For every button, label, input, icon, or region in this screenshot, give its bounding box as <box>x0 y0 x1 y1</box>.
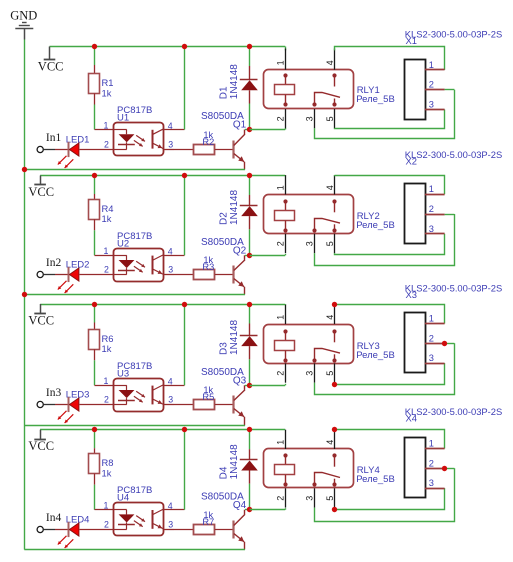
svg-text:1N4148: 1N4148 <box>229 444 240 479</box>
svg-text:Q2: Q2 <box>233 246 247 257</box>
wire X3 pin 2 jog <box>445 343 455 345</box>
junction VCC rail / D2 <box>247 173 252 178</box>
pin stub U2.3 <box>164 274 174 276</box>
svg-text:Реле_5B: Реле_5B <box>356 474 395 485</box>
wire collector node to relay RLY3 pin 2 <box>250 385 286 387</box>
svg-text:1: 1 <box>276 60 286 65</box>
wire VCC rail to relay RLY4 pin 1 <box>285 429 287 431</box>
wire LED2 to U2 pin 2 <box>80 274 114 276</box>
diode D4 1N4148 <box>219 430 258 510</box>
svg-text:R7: R7 <box>202 517 214 527</box>
svg-text:X1: X1 <box>406 35 417 46</box>
wire VCC rail to relay RLY1 pin 1 <box>285 47 287 51</box>
svg-text:KLS2-300-5.00-03P-2S: KLS2-300-5.00-03P-2S <box>405 149 502 160</box>
svg-text:2: 2 <box>104 520 109 530</box>
junction VCC rail / U1 pin 4 riser <box>182 44 187 49</box>
wire relay RLY2 pin 5 to X2 pin 3 <box>335 234 445 255</box>
wire channel 4 bottom rail <box>24 549 245 551</box>
relay RLY4 Реле_5B <box>264 430 395 508</box>
svg-text:4: 4 <box>325 440 335 445</box>
svg-text:3: 3 <box>168 395 173 405</box>
wire LED4 anode <box>78 529 81 531</box>
junction D2 / Q2 collector / relay coil <box>247 253 252 258</box>
wire relay RLY2 pin 3 to X2 pin 2 <box>315 214 455 266</box>
wire R1 to U1 pin 1 <box>94 105 96 130</box>
svg-text:X4: X4 <box>406 413 417 424</box>
junction X3 pin 2 <box>442 341 447 346</box>
svg-text:1: 1 <box>104 246 109 256</box>
wire Q4 collector to node <box>245 509 250 511</box>
pin stub U4.4 <box>164 509 184 511</box>
svg-text:2: 2 <box>429 458 434 468</box>
svg-text:2: 2 <box>429 333 434 343</box>
wire relay RLY3 pin 5 to X3 pin 3 <box>335 363 445 384</box>
junction D3 / Q3 collector / relay coil <box>247 383 252 388</box>
transistor Q4 S8050DA <box>201 491 247 549</box>
wire VCC rail channel 2 <box>40 175 285 177</box>
power port VCC channel 1 <box>38 47 64 74</box>
svg-text:3: 3 <box>305 116 315 121</box>
svg-text:2: 2 <box>104 140 109 150</box>
svg-text:2: 2 <box>104 395 109 405</box>
node In2 input port <box>37 257 61 278</box>
svg-text:VCC: VCC <box>28 185 54 199</box>
transistor Q3 S8050DA <box>201 367 247 426</box>
svg-text:In3: In3 <box>46 387 62 399</box>
wire relay RLY1 pin 3 to X1 pin 2 <box>315 90 455 139</box>
wire VCC rail to relay RLY3 pin 1 <box>285 303 287 306</box>
pin stub U1.3 <box>164 149 174 151</box>
wire U1 pin 4 to VCC rail <box>184 47 186 130</box>
wire relay RLY4 pin 4 to X4 pin 1 <box>334 430 444 449</box>
svg-text:1: 1 <box>104 501 109 511</box>
resistor R4 1k <box>89 176 114 231</box>
svg-text:5: 5 <box>325 241 335 246</box>
svg-text:1: 1 <box>429 184 434 194</box>
svg-text:3: 3 <box>429 353 434 363</box>
connector X3 KLS2-300-5.00-03P-2S <box>405 283 503 373</box>
svg-text:2: 2 <box>276 371 286 376</box>
op-amp U4 optocoupler PC817B <box>104 485 174 535</box>
LED LED1 <box>58 135 90 169</box>
svg-text:4: 4 <box>325 315 335 320</box>
wire channel 1 bottom rail <box>24 169 245 171</box>
ground GND net port <box>10 9 37 40</box>
wire GND bus (left vertical) <box>24 40 26 550</box>
svg-text:VCC: VCC <box>38 60 64 74</box>
wire VCC rail channel 3 <box>40 304 285 306</box>
node In4 input port <box>37 512 61 533</box>
junction D4 / Q4 collector / relay coil <box>247 507 252 512</box>
wire X2 pin 2 jog <box>445 214 455 216</box>
wire In1 to LED1 <box>43 149 55 151</box>
svg-text:1: 1 <box>276 315 286 320</box>
LED LED2 <box>58 260 90 294</box>
svg-text:1: 1 <box>104 376 109 386</box>
svg-text:In1: In1 <box>46 132 62 144</box>
svg-text:1N4148: 1N4148 <box>229 320 240 355</box>
junction VCC rail / U3 pin 4 riser <box>182 302 187 307</box>
diode D2 1N4148 <box>219 176 258 256</box>
pin stub U4.3 <box>164 529 174 531</box>
svg-text:3: 3 <box>305 496 315 501</box>
svg-text:3: 3 <box>168 265 173 275</box>
svg-text:2: 2 <box>429 204 434 214</box>
resistor R1 1k <box>89 47 114 105</box>
pin stub U3.3 <box>164 404 174 406</box>
LED LED3 <box>58 390 90 424</box>
wire relay RLY3 pin 4 to X3 pin 1 <box>334 305 444 324</box>
junction relay RLY3 pin 5 <box>332 382 337 387</box>
resistor R3 1k <box>174 255 234 280</box>
svg-text:GND: GND <box>10 9 37 23</box>
svg-text:In2: In2 <box>46 257 62 269</box>
wire LED3 to U3 pin 2 <box>80 404 114 406</box>
wire LED2 anode <box>78 274 81 276</box>
power port VCC channel 4 <box>28 430 54 454</box>
svg-text:1N4148: 1N4148 <box>229 190 240 225</box>
wire relay RLY2 pin 4 to X2 pin 1 <box>335 175 445 194</box>
svg-text:3: 3 <box>429 478 434 488</box>
svg-text:Реле_5B: Реле_5B <box>356 220 395 231</box>
junction D1 / Q1 collector / relay coil <box>247 127 252 132</box>
svg-text:X2: X2 <box>406 156 417 167</box>
svg-text:1: 1 <box>104 120 109 130</box>
svg-text:5: 5 <box>325 116 335 121</box>
connector X2 KLS2-300-5.00-03P-2S <box>405 149 503 243</box>
op-amp U2 optocoupler PC817B <box>104 231 174 282</box>
svg-text:2: 2 <box>276 116 286 121</box>
resistor R2 1k <box>174 130 234 155</box>
svg-text:1: 1 <box>276 185 286 190</box>
junction VCC rail / R8 <box>92 427 97 432</box>
wire LED4 to U4 pin 2 <box>80 529 114 531</box>
svg-text:R3: R3 <box>202 262 214 272</box>
svg-text:Q4: Q4 <box>233 500 247 511</box>
power port VCC channel 3 <box>28 304 54 328</box>
wire relay RLY1 pin 5 to X1 pin 3 <box>335 110 445 129</box>
svg-text:Реле_5B: Реле_5B <box>356 350 395 361</box>
svg-text:1: 1 <box>276 440 286 445</box>
junction VCC rail / R4 <box>92 173 97 178</box>
resistor R7 1k <box>174 510 234 535</box>
svg-text:Q3: Q3 <box>233 376 247 387</box>
svg-text:D1: D1 <box>219 86 230 99</box>
svg-text:D4: D4 <box>219 466 230 479</box>
pin stub U2.4 <box>164 255 184 257</box>
pin stub U1.1 <box>95 129 114 131</box>
wire U3 pin 4 to VCC rail <box>184 304 186 385</box>
wire relay RLY1 pin 4 to X1 pin 1 <box>335 47 445 70</box>
wire R4 to U2 pin 1 <box>94 230 96 255</box>
junction VCC rail / D1 <box>247 44 252 49</box>
op-amp U3 optocoupler PC817B <box>104 361 174 412</box>
pin stub U1.4 <box>164 129 184 131</box>
wire VCC rail channel 4 <box>40 429 285 431</box>
junction relay RLY4 pin 5 <box>332 507 337 512</box>
pin stub U4.1 <box>95 509 114 511</box>
junction VCC rail / R1 <box>92 44 97 49</box>
wire Q2 collector to node <box>245 255 250 257</box>
wire collector node to relay RLY2 pin 2 <box>250 255 286 257</box>
wire collector node to relay RLY4 pin 2 <box>250 509 286 511</box>
svg-text:1: 1 <box>429 60 434 70</box>
wire LED3 anode <box>78 404 81 406</box>
relay RLY3 Реле_5B <box>264 305 395 383</box>
svg-text:4: 4 <box>325 185 335 190</box>
wire In2 to LED2 <box>43 274 55 276</box>
svg-text:VCC: VCC <box>28 439 54 453</box>
svg-text:KLS2-300-5.00-03P-2S: KLS2-300-5.00-03P-2S <box>405 283 502 294</box>
junction GND bus / channel 1 bottom rail <box>22 167 27 172</box>
junction VCC rail / D3 <box>247 302 252 307</box>
svg-text:4: 4 <box>325 60 335 65</box>
resistor R5 1k <box>174 385 234 410</box>
wire channel 3 bottom rail <box>24 425 245 427</box>
junction relay RLY3 pin 4 / VCC wire <box>332 302 337 307</box>
wire In3 to LED3 <box>43 404 55 406</box>
svg-text:2: 2 <box>104 265 109 275</box>
node In3 input port <box>37 387 61 408</box>
svg-text:3: 3 <box>168 520 173 530</box>
resistor R8 1k <box>89 430 114 485</box>
junction GND bus / channel 2 bottom rail <box>22 292 27 297</box>
junction VCC rail / U2 pin 4 riser <box>182 173 187 178</box>
diode D1 1N4148 <box>219 47 258 130</box>
power port VCC channel 2 <box>28 176 54 200</box>
connector X4 KLS2-300-5.00-03P-2S <box>405 406 503 497</box>
wire X4 pin 2 jog <box>445 468 455 470</box>
junction X4 pin 2 <box>442 466 447 471</box>
wire R8 to U4 pin 1 <box>94 485 96 510</box>
svg-text:3: 3 <box>305 241 315 246</box>
connector X1 KLS2-300-5.00-03P-2S <box>405 29 503 120</box>
wire VCC rail to relay RLY2 pin 1 <box>285 174 287 176</box>
wire In4 to LED4 <box>43 529 55 531</box>
relay RLY2 Реле_5B <box>264 175 395 253</box>
svg-text:R2: R2 <box>202 137 214 147</box>
svg-text:2: 2 <box>276 496 286 501</box>
svg-text:5: 5 <box>325 371 335 376</box>
pin stub U3.4 <box>164 385 184 387</box>
wire U4 pin 4 to VCC rail <box>184 430 186 510</box>
junction relay RLY4 pin 4 / VCC wire <box>332 427 337 432</box>
pin stub U2.1 <box>95 255 114 257</box>
wire relay RLY4 pin 5 to X4 pin 3 <box>335 488 445 509</box>
svg-text:Реле_5B: Реле_5B <box>356 94 395 105</box>
svg-text:3: 3 <box>429 100 434 110</box>
LED LED4 <box>58 515 90 549</box>
svg-text:D3: D3 <box>219 342 230 355</box>
transistor Q2 S8050DA <box>201 237 247 295</box>
svg-text:2: 2 <box>429 80 434 90</box>
svg-text:1N4148: 1N4148 <box>229 64 240 99</box>
wire LED1 anode <box>78 149 81 151</box>
svg-text:1k: 1k <box>102 468 112 479</box>
pin stub U3.1 <box>95 385 114 387</box>
wire Q3 collector to node <box>245 385 250 387</box>
svg-text:D2: D2 <box>219 212 230 225</box>
junction VCC rail / R6 <box>92 302 97 307</box>
wire X1 pin 2 jog <box>445 89 455 91</box>
wire relay RLY3 pin 3 to X3 pin 2 <box>315 343 455 394</box>
wire collector node to relay RLY1 pin 2 <box>250 129 286 131</box>
svg-text:1: 1 <box>429 314 434 324</box>
svg-text:VCC: VCC <box>28 314 54 328</box>
diode D3 1N4148 <box>219 304 258 385</box>
wire VCC rail channel 1 <box>50 46 286 48</box>
svg-text:Q1: Q1 <box>233 120 247 131</box>
relay RLY1 Реле_5B <box>264 49 395 129</box>
wire channel 2 bottom rail <box>24 294 245 296</box>
op-amp U1 optocoupler PC817B <box>104 105 174 156</box>
transistor Q1 S8050DA <box>201 111 247 169</box>
svg-text:R5: R5 <box>202 392 214 402</box>
junction VCC rail / U4 pin 4 riser <box>182 427 187 432</box>
node In1 input port <box>37 132 61 153</box>
svg-text:1k: 1k <box>102 213 112 224</box>
junction VCC rail / D4 <box>247 427 252 432</box>
svg-text:3: 3 <box>429 224 434 234</box>
svg-text:3: 3 <box>305 371 315 376</box>
svg-text:1k: 1k <box>102 87 112 98</box>
svg-text:1: 1 <box>429 439 434 449</box>
svg-text:In4: In4 <box>46 512 62 524</box>
svg-text:2: 2 <box>276 241 286 246</box>
svg-text:KLS2-300-5.00-03P-2S: KLS2-300-5.00-03P-2S <box>405 406 502 417</box>
wire Q1 collector to node <box>245 129 250 131</box>
wire relay RLY4 pin 3 to X4 pin 2 <box>315 468 455 521</box>
svg-text:X3: X3 <box>406 289 417 300</box>
resistor R6 1k <box>89 304 114 360</box>
svg-text:KLS2-300-5.00-03P-2S: KLS2-300-5.00-03P-2S <box>405 29 502 40</box>
wire U2 pin 4 to VCC rail <box>184 176 186 256</box>
svg-text:3: 3 <box>168 140 173 150</box>
wire LED1 to U1 pin 2 <box>80 149 114 151</box>
svg-text:5: 5 <box>325 496 335 501</box>
wire R6 to U3 pin 1 <box>94 360 96 385</box>
svg-text:1k: 1k <box>102 343 112 354</box>
